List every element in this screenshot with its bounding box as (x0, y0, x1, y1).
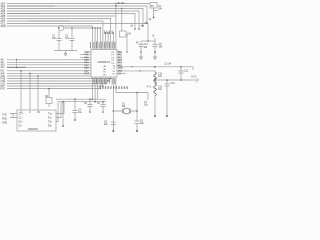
svg-text:ADM232: ADM232 (28, 128, 38, 131)
svg-text:P50: P50 (118, 52, 123, 54)
svg-text:GND: GND (1, 25, 7, 28)
svg-text:P51: P51 (118, 55, 123, 57)
svg-text:P42: P42 (85, 57, 90, 59)
svg-text:uPD84C3: uPD84C3 (98, 60, 111, 64)
svg-text:P44: P44 (85, 63, 90, 65)
svg-text:R1i: R1i (48, 117, 52, 119)
svg-text:GND: GND (2, 123, 7, 125)
svg-text:P41: P41 (85, 55, 90, 57)
svg-text:P45: P45 (85, 65, 90, 67)
svg-text:OUT: OUT (191, 77, 196, 79)
svg-text:C2-: C2- (19, 125, 23, 127)
svg-text:L1 104: L1 104 (164, 64, 172, 66)
svg-text:P40: P40 (85, 52, 90, 54)
svg-text:C2+: C2+ (19, 121, 24, 123)
svg-text:C6 104: C6 104 (117, 3, 125, 5)
svg-text:P55: P55 (118, 65, 123, 67)
svg-text:C1-: C1- (19, 117, 23, 119)
svg-text:P57: P57 (118, 71, 123, 73)
svg-text:RST: RST (85, 74, 90, 76)
svg-text:5V: 5V (151, 6, 154, 8)
svg-text:R2i: R2i (48, 125, 52, 127)
svg-text:4.7u: 4.7u (147, 87, 152, 89)
svg-text:4M: 4M (122, 106, 125, 108)
svg-text:P47: P47 (85, 71, 90, 73)
svg-text:VDD: VDD (118, 68, 123, 70)
svg-text:C13: C13 (171, 83, 176, 85)
svg-text:P43: P43 (85, 60, 90, 62)
svg-text:P46: P46 (85, 68, 90, 70)
svg-text:TXD: TXD (2, 115, 7, 117)
svg-text:VC: VC (37, 112, 41, 114)
svg-text:V-: V- (29, 112, 31, 114)
svg-text:P53: P53 (118, 60, 123, 62)
svg-text:RXD: RXD (2, 119, 7, 121)
svg-text:P52: P52 (118, 57, 123, 59)
svg-text:RST: RST (1, 87, 6, 90)
svg-text:P54: P54 (118, 63, 123, 65)
